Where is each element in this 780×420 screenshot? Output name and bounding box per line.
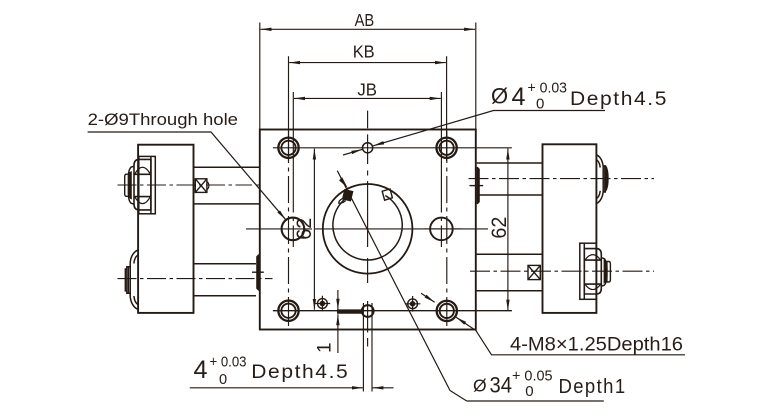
left top nut rod tip tab (125, 174, 129, 196)
retaining ring inner arc (333, 196, 402, 261)
right bottom hex nut body (584, 249, 601, 294)
right top centerline (469, 178, 655, 180)
right top seal tick (470, 185, 484, 187)
small plug hole bottom-right (405, 296, 421, 312)
Ø4 top leader opposing arrow (343, 149, 362, 155)
svg-text:4: 4 (512, 83, 526, 111)
svg-text:2-Ø9Through hole: 2-Ø9Through hole (88, 111, 238, 129)
svg-text:4-M8×1.25Depth16: 4-M8×1.25Depth16 (510, 333, 683, 355)
svg-text:Depth1: Depth1 (559, 376, 627, 398)
small plug hole bottom-left (315, 296, 331, 312)
callout Ø4 +0.03/0 Depth4.5 top right (491, 80, 668, 113)
corner hole bottom-right M8 (437, 301, 457, 321)
62 inner dimension line (313, 149, 315, 310)
left top centerline (118, 184, 260, 186)
svg-text:+ 0.03: + 0.03 (528, 80, 568, 97)
svg-text:KB: KB (353, 41, 375, 61)
4 slot leader with arrow (190, 387, 363, 389)
plate vertical centerline (367, 111, 369, 347)
corner hole top-right M8 (436, 138, 456, 158)
Ø4 slot hole bottom (362, 305, 374, 317)
left end-cap block (138, 145, 193, 313)
left bottom seal black bar (256, 254, 259, 290)
right top seal black bar (477, 167, 480, 204)
left bottom nut plate inner line (127, 267, 129, 293)
Ø34 leader arrowhead (339, 177, 348, 188)
svg-text:0: 0 (219, 372, 227, 388)
svg-text:Depth4.5: Depth4.5 (570, 88, 668, 110)
right top fitting black bar (604, 165, 609, 191)
central bore outer circle Ø34 (323, 184, 413, 274)
callout 4 +0.03/0 Depth4.5 bottom left (194, 355, 350, 388)
left top cylinder tube wire (194, 167, 260, 204)
svg-text:+ 0.05: + 0.05 (512, 368, 553, 385)
AB dimension line (261, 28, 476, 30)
left top nut crown black bar (129, 171, 132, 200)
corner hole bottom-left M8 (278, 301, 298, 321)
callout Ø34 +0.05/0 Depth1 (473, 368, 627, 401)
right bottom nut crown tab (601, 258, 607, 287)
left top hex nut washer plate (139, 156, 156, 213)
bolt column centerline right (446, 131, 448, 326)
svg-text:62: 62 (488, 217, 511, 239)
Ø9 hole left horizontal tick (246, 228, 312, 230)
bolt column centerline left (288, 131, 290, 326)
Ø9 hole right horizontal tick (425, 228, 463, 230)
retaining ring right lug (382, 189, 392, 200)
svg-text:Depth4.5: Depth4.5 (251, 361, 349, 383)
right bottom cylinder tube wire (476, 254, 543, 290)
right bottom nut rod tip tab (607, 262, 611, 283)
bottom hole row centerline (273, 310, 512, 312)
Ø34 label underline (467, 400, 604, 402)
svg-text:AB: AB (355, 10, 375, 30)
slot wall extension lines (363, 303, 372, 392)
KB dimension line (289, 62, 446, 64)
62 right dimension line (507, 149, 509, 311)
left port plug X-box (195, 179, 209, 193)
1 step dimension line (337, 290, 339, 310)
svg-text:34: 34 (490, 373, 513, 398)
right top fitting dome (596, 155, 605, 204)
4-M8 label leader (456, 317, 685, 355)
svg-text:0: 0 (525, 383, 533, 400)
right bottom centerline (470, 270, 654, 272)
left top nut crown tab (128, 166, 134, 204)
svg-text:4: 4 (194, 356, 208, 384)
Ø9 through hole right (430, 218, 453, 241)
Ø9 through hole left (282, 218, 305, 241)
KB dimension extension lines (289, 56, 447, 161)
left bottom cylinder tube wire (194, 264, 257, 296)
4-M8 leader opposing arrow (421, 293, 435, 302)
bottom 1mm step thick band (337, 309, 362, 313)
AB dimension extension lines (260, 23, 476, 130)
2-Ø9 label leader (88, 132, 286, 220)
retaining ring left hook end (339, 199, 346, 204)
plate front face outline (260, 130, 476, 330)
right port plug X-box (528, 265, 540, 279)
left bottom centerline (118, 278, 273, 280)
left bottom nut dome profile (125, 250, 138, 310)
right end-cap block (543, 144, 597, 313)
JB dimension extension lines (293, 92, 441, 247)
retaining ring left lug (343, 190, 353, 201)
svg-text:+ 0.03: + 0.03 (210, 355, 247, 371)
svg-text:Ø: Ø (491, 84, 508, 109)
right top cylinder tube wire (477, 163, 543, 195)
right bottom hex nut washer plate (580, 243, 596, 299)
plate horizontal centerline (315, 228, 488, 230)
svg-text:1: 1 (315, 342, 336, 353)
Ø4 pin hole top (363, 143, 373, 153)
svg-text:JB: JB (357, 80, 377, 100)
corner hole top-left M8 (278, 138, 298, 158)
left top hex nut body (134, 159, 151, 210)
Ø34 label leader (337, 171, 466, 401)
Ø4 top label leader (373, 111, 605, 146)
svg-text:Ø: Ø (473, 376, 487, 396)
svg-text:0: 0 (536, 95, 544, 112)
svg-text:62: 62 (293, 218, 316, 240)
JB dimension line (294, 97, 441, 99)
top hole row centerline (273, 147, 512, 149)
right bottom nut crown black bar (604, 259, 608, 284)
left bottom seal tick (252, 271, 264, 273)
